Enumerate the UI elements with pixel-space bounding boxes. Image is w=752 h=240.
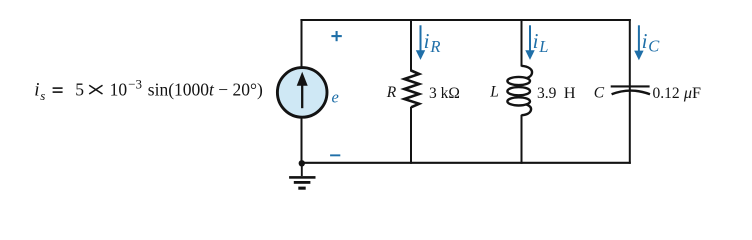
label 3.9 H [537, 83, 576, 102]
svg-text:H: H [564, 83, 576, 102]
label 0.12 uF [653, 84, 702, 102]
ground [289, 163, 315, 189]
label iL [533, 29, 549, 56]
svg-text:C: C [594, 84, 605, 101]
arrow iR [416, 25, 425, 60]
svg-text:i: i [34, 80, 39, 101]
svg-text:3 kΩ: 3 kΩ [429, 85, 460, 102]
wire source branch lower [301, 117, 303, 164]
resistor R1 [404, 71, 419, 108]
svg-text:C: C [648, 37, 660, 56]
wire resistor branch lower [410, 107, 412, 164]
svg-text:e: e [332, 88, 339, 107]
inductor L1 [507, 66, 532, 115]
node junction dot [299, 160, 305, 166]
capacitor C1 [611, 86, 650, 94]
svg-text:R: R [386, 84, 397, 101]
svg-text:μF: μF [683, 84, 701, 102]
svg-text:i: i [533, 29, 539, 53]
svg-text:i: i [642, 29, 648, 53]
svg-text:L: L [538, 37, 548, 56]
svg-text:i: i [424, 29, 430, 53]
svg-text:R: R [429, 37, 440, 56]
wire inductor branch upper [521, 19, 523, 67]
wire resistor branch upper [410, 19, 412, 72]
svg-text:−3: −3 [128, 77, 142, 92]
label source equation [34, 77, 263, 103]
arrow iL [525, 25, 534, 60]
label iR [424, 29, 441, 56]
label iC [642, 29, 661, 56]
label minus [330, 154, 340, 156]
svg-text:5: 5 [75, 80, 84, 100]
svg-text:L: L [489, 84, 499, 101]
label plus [331, 31, 341, 41]
svg-text:sin(1000t − 20°): sin(1000t − 20°) [148, 80, 263, 100]
wire source branch upper [301, 19, 303, 67]
svg-text:s: s [40, 88, 45, 103]
svg-text:3.9: 3.9 [537, 85, 557, 102]
wire inductor branch lower [521, 115, 523, 164]
arrow iC [634, 25, 643, 60]
svg-text:10: 10 [110, 80, 128, 100]
current source Is [277, 68, 327, 118]
svg-text:0.12: 0.12 [653, 85, 680, 102]
wire capacitor branch [629, 19, 631, 164]
wire bottom rail [300, 162, 630, 164]
wire top rail [300, 19, 630, 21]
